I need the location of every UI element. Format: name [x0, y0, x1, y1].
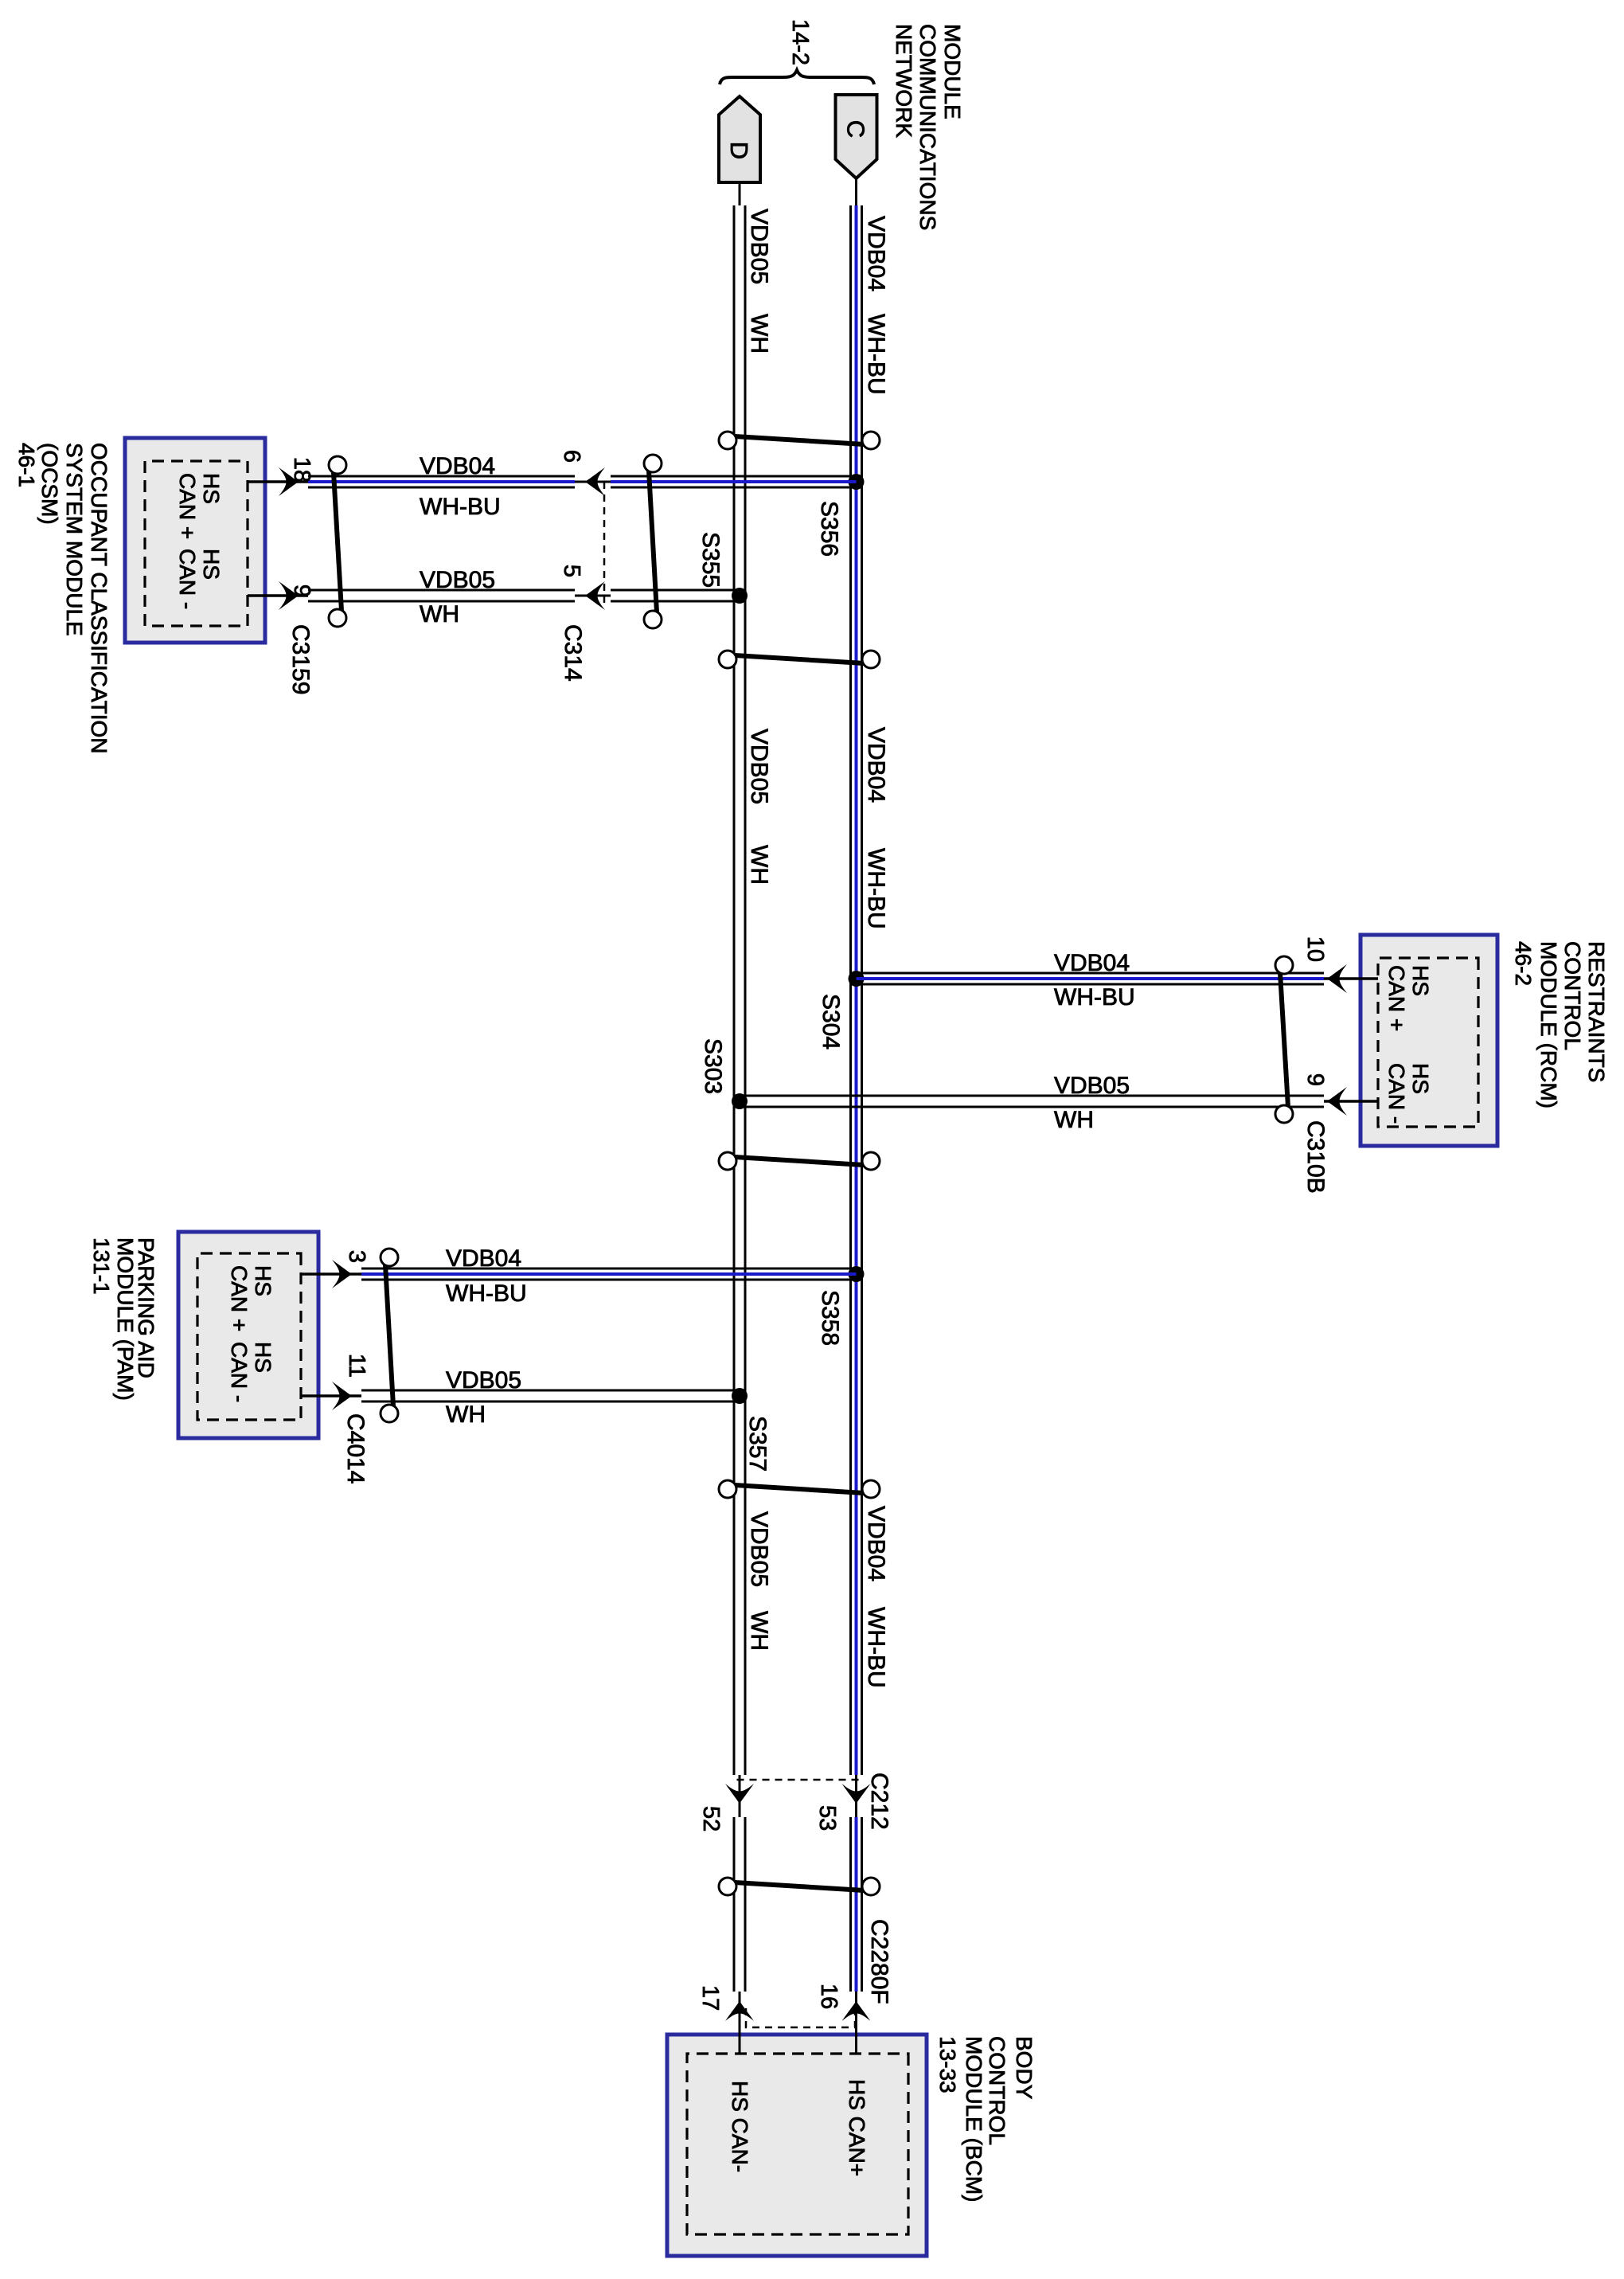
svg-text:VDB04: VDB04	[863, 1506, 889, 1581]
svg-text:RESTRAINTS: RESTRAINTS	[1584, 941, 1609, 1082]
svg-text:VDB04: VDB04	[1054, 950, 1130, 976]
svg-text:WH-BU: WH-BU	[863, 848, 889, 929]
svg-text:17: 17	[697, 1985, 723, 2011]
svg-text:HS CAN-: HS CAN-	[728, 2081, 752, 2172]
svg-text:WH: WH	[420, 601, 459, 627]
svg-text:CONTROL: CONTROL	[985, 2036, 1009, 2145]
svg-text:C4014: C4014	[342, 1413, 369, 1483]
svg-text:WH: WH	[1054, 1107, 1094, 1133]
svg-text:S303: S303	[700, 1038, 726, 1094]
svg-text:CAN +: CAN +	[227, 1265, 252, 1331]
svg-text:46-2: 46-2	[1511, 941, 1536, 986]
svg-text:MODULE (RCM): MODULE (RCM)	[1536, 941, 1561, 1108]
svg-text:VDB04: VDB04	[863, 216, 889, 291]
svg-text:VDB04: VDB04	[446, 1245, 521, 1272]
svg-text:S304: S304	[818, 994, 844, 1050]
svg-text:WH-BU: WH-BU	[863, 314, 889, 395]
svg-text:9: 9	[289, 584, 314, 597]
svg-text:HS: HS	[251, 1265, 275, 1296]
svg-text:WH-BU: WH-BU	[420, 494, 501, 520]
svg-text:D: D	[725, 142, 753, 159]
svg-text:VDB05: VDB05	[746, 1511, 772, 1587]
svg-text:HS: HS	[251, 1342, 275, 1373]
svg-text:18: 18	[289, 457, 314, 483]
svg-text:VDB05: VDB05	[446, 1367, 521, 1394]
svg-text:MODULE (PAM): MODULE (PAM)	[113, 1237, 138, 1401]
svg-text:MODULE: MODULE	[940, 24, 965, 119]
svg-text:HS: HS	[1408, 1063, 1433, 1094]
svg-text:10: 10	[1302, 936, 1328, 962]
svg-text:CONTROL: CONTROL	[1560, 941, 1585, 1050]
svg-text:VDB04: VDB04	[863, 727, 889, 803]
svg-text:WH: WH	[446, 1401, 486, 1428]
svg-text:S357: S357	[744, 1416, 771, 1472]
svg-text:C: C	[842, 120, 870, 138]
svg-text:VDB05: VDB05	[1054, 1073, 1130, 1099]
svg-text:S355: S355	[697, 532, 724, 588]
svg-text:HS: HS	[199, 549, 224, 580]
svg-text:WH-BU: WH-BU	[863, 1607, 889, 1688]
svg-text:CAN -: CAN -	[1384, 1063, 1409, 1124]
svg-text:S356: S356	[816, 501, 842, 557]
svg-text:WH: WH	[746, 845, 772, 885]
svg-text:SYSTEM MODULE: SYSTEM MODULE	[62, 443, 87, 636]
svg-text:COMMUNICATIONS: COMMUNICATIONS	[915, 24, 940, 230]
svg-text:HS: HS	[199, 473, 224, 504]
svg-text:9: 9	[1302, 1073, 1328, 1086]
svg-text:(OCSM): (OCSM)	[37, 443, 62, 525]
svg-text:C314: C314	[560, 624, 586, 682]
svg-text:14-2: 14-2	[787, 19, 813, 65]
svg-text:13-33: 13-33	[935, 2036, 960, 2093]
svg-text:VDB05: VDB05	[420, 567, 495, 593]
svg-text:C3159: C3159	[287, 624, 314, 694]
svg-text:5: 5	[559, 565, 584, 577]
svg-text:CAN -: CAN -	[175, 549, 200, 609]
svg-text:WH: WH	[746, 314, 772, 354]
svg-text:46-1: 46-1	[14, 443, 39, 487]
svg-text:VDB04: VDB04	[420, 453, 495, 479]
svg-text:11: 11	[344, 1354, 369, 1378]
svg-text:CAN +: CAN +	[1384, 965, 1409, 1031]
svg-text:52: 52	[698, 1806, 724, 1831]
svg-text:NETWORK: NETWORK	[892, 24, 916, 138]
svg-text:MODULE (BCM): MODULE (BCM)	[962, 2036, 986, 2202]
svg-text:3: 3	[344, 1250, 369, 1263]
svg-text:BODY: BODY	[1012, 2036, 1036, 2100]
svg-text:OCCUPANT CLASSIFICATION: OCCUPANT CLASSIFICATION	[87, 443, 111, 754]
svg-text:CAN -: CAN -	[227, 1342, 252, 1402]
svg-text:VDB05: VDB05	[746, 729, 772, 804]
svg-text:HS: HS	[1408, 965, 1433, 996]
svg-text:VDB05: VDB05	[746, 209, 772, 284]
svg-text:WH-BU: WH-BU	[446, 1280, 527, 1307]
svg-text:131-1: 131-1	[89, 1237, 114, 1295]
svg-text:C310B: C310B	[1302, 1120, 1329, 1194]
svg-text:C2280F: C2280F	[866, 1919, 892, 2004]
svg-text:WH: WH	[746, 1611, 772, 1651]
svg-text:HS CAN+: HS CAN+	[845, 2079, 869, 2176]
svg-text:16: 16	[816, 1984, 841, 2009]
svg-text:53: 53	[814, 1805, 840, 1831]
svg-text:CAN +: CAN +	[175, 473, 200, 539]
svg-text:C212: C212	[866, 1773, 892, 1830]
svg-text:6: 6	[559, 450, 584, 463]
svg-text:WH-BU: WH-BU	[1054, 984, 1135, 1010]
svg-text:S358: S358	[817, 1290, 843, 1346]
